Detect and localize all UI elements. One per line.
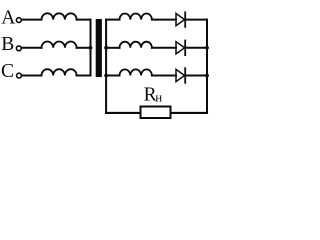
svg-text:A: A — [1, 8, 15, 29]
wire to diode VD2 — [152, 47, 176, 49]
junction right bus / phase B — [205, 46, 209, 50]
inductor L3 primary phase C — [42, 69, 77, 75]
junction primary bus / phase B — [89, 46, 93, 50]
bottom load wire right — [171, 112, 208, 114]
primary neutral bus wire — [90, 20, 92, 76]
wire to diode VD1 — [152, 19, 176, 21]
svg-text:B: B — [1, 34, 14, 55]
inductor L1 primary phase A — [42, 13, 77, 19]
right cathode bus wire — [206, 20, 208, 113]
wire B primary — [22, 47, 42, 49]
diode VD3 — [176, 68, 185, 83]
wire A primary — [22, 19, 42, 21]
inductor secondary winding B — [120, 42, 152, 48]
resistor Rn load — [141, 107, 171, 119]
junction right bus / phase C — [205, 74, 209, 78]
wire A to primary bus — [77, 20, 91, 21]
diode VD2 — [176, 41, 185, 56]
secondary neutral bus wire — [105, 20, 107, 113]
svg-text:н: н — [155, 90, 162, 105]
wire diode VD1 to right bus — [186, 19, 207, 21]
wire secondary A — [106, 19, 119, 21]
bottom load wire left — [106, 112, 140, 114]
inductor secondary winding A — [120, 14, 152, 20]
wire diode VD2 to right bus — [186, 47, 207, 49]
wire C primary — [22, 75, 42, 77]
wire to diode VD3 — [152, 75, 176, 77]
wire C to primary bus — [77, 75, 91, 77]
svg-text:C: C — [1, 61, 14, 82]
junction secondary bus / winding C — [104, 74, 108, 78]
wire secondary B — [106, 47, 119, 49]
terminal A — [16, 18, 21, 23]
terminal B — [16, 46, 21, 51]
terminal C — [17, 73, 22, 78]
diode VD1 — [176, 12, 185, 27]
transformer core — [96, 19, 102, 77]
wire secondary C — [106, 75, 119, 77]
inductor L2 primary phase B — [42, 41, 77, 47]
wire B to primary bus — [77, 47, 91, 49]
wire diode VD3 to right bus — [186, 75, 207, 77]
junction secondary bus / winding B — [104, 46, 108, 50]
inductor secondary winding C — [120, 69, 152, 75]
